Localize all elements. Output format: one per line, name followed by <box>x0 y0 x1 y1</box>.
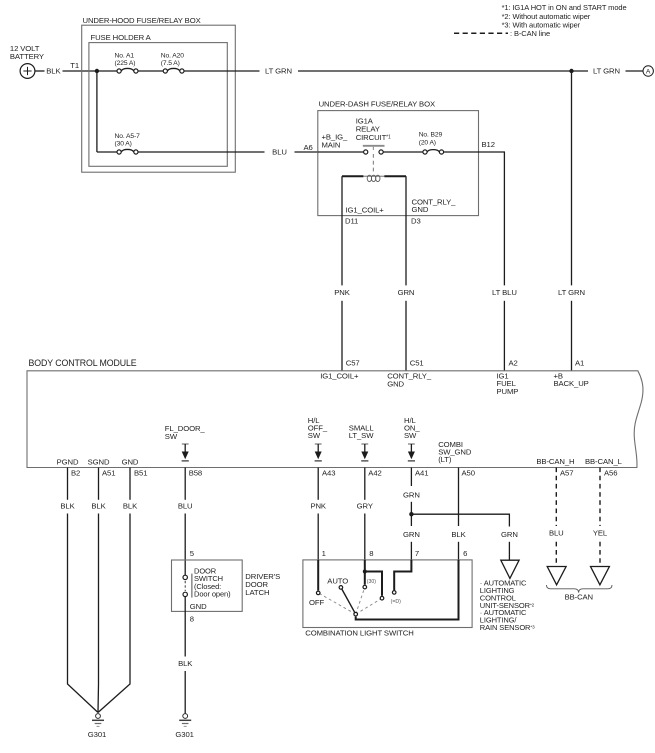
svg-text:No. A20: No. A20 <box>161 52 184 59</box>
contact headlight low <box>380 596 384 600</box>
ground G301 right <box>179 714 191 727</box>
svg-text:GND: GND <box>412 205 429 214</box>
svg-text:OFF: OFF <box>309 598 324 607</box>
fuse A20 <box>163 68 184 73</box>
label +B BACK_UP <box>554 371 589 388</box>
wire B58 upper <box>184 468 186 500</box>
svg-text:PUMP: PUMP <box>497 387 519 396</box>
svg-text:LT GRN: LT GRN <box>265 67 292 76</box>
wire fuse A20 to LT GRN label <box>184 70 260 72</box>
wire to fuse A5-7 <box>97 151 117 153</box>
node pin8 branch <box>363 570 367 574</box>
svg-text:(20 A): (20 A) <box>419 140 436 147</box>
label IG1A RELAY CIRCUIT*1 <box>356 117 391 142</box>
wire fuse A5-7 to BLU label <box>138 151 265 153</box>
svg-text:BLK: BLK <box>60 501 75 510</box>
label No. A1 (225 A) <box>115 52 136 67</box>
svg-text:GRY: GRY <box>357 501 373 510</box>
combination light switch box <box>303 560 472 628</box>
wire B51 upper <box>129 468 131 500</box>
solid arm pivot-AUTO <box>341 587 356 614</box>
connector triangle B-CAN H <box>547 567 566 585</box>
svg-text:A56: A56 <box>604 468 617 477</box>
wire B51 to merge <box>98 514 130 713</box>
svg-text:A6: A6 <box>304 143 313 152</box>
arrow B58 internal <box>182 444 189 461</box>
svg-text:B12: B12 <box>482 140 495 149</box>
node LT GRN junction <box>569 69 573 73</box>
svg-text:BB-CAN_L: BB-CAN_L <box>585 457 623 466</box>
svg-text:D3: D3 <box>411 217 421 226</box>
svg-text:BLU: BLU <box>272 148 287 157</box>
svg-text:GRN: GRN <box>501 530 518 539</box>
driver's door latch box <box>172 560 243 611</box>
svg-text:7: 7 <box>415 549 419 558</box>
svg-text:GRN: GRN <box>403 530 420 539</box>
battery symbol <box>20 64 35 79</box>
wire LT GRN label to node <box>298 70 572 72</box>
wire A41 upper <box>410 468 412 487</box>
label No. B29 (20 A) <box>419 131 443 146</box>
svg-text:G301: G301 <box>88 730 106 739</box>
svg-text:BLU: BLU <box>178 501 193 510</box>
svg-text:BLK: BLK <box>451 530 466 539</box>
svg-text:A2: A2 <box>509 358 518 367</box>
svg-text:C51: C51 <box>410 358 424 367</box>
fuse A1 <box>117 68 138 73</box>
wire junction to fuse A1 <box>97 70 117 72</box>
wire BLK label to junction T1 <box>63 70 97 72</box>
dashed arm pivot-OFF <box>318 593 356 614</box>
contact AUTO <box>339 586 343 590</box>
svg-text:No. A1: No. A1 <box>115 52 135 59</box>
svg-text:BLK: BLK <box>178 659 193 668</box>
arrow A41 internal <box>408 444 415 461</box>
wire fuse B29 to B12 <box>444 151 505 153</box>
svg-text:IG1_COIL+: IG1_COIL+ <box>320 371 359 380</box>
svg-text:LT_SW: LT_SW <box>349 431 374 440</box>
relay K1 contact <box>363 146 385 154</box>
svg-text:A1: A1 <box>575 358 584 367</box>
svg-text:A41: A41 <box>415 468 428 477</box>
svg-text:GND: GND <box>190 602 207 611</box>
wire GRN to junction <box>410 502 412 526</box>
battery 12V label <box>10 44 44 61</box>
wire A51 to merge <box>97 514 100 713</box>
svg-text:YEL: YEL <box>593 529 608 538</box>
connector A <box>643 66 653 76</box>
svg-text:UNDER-DASH FUSE/RELAY BOX: UNDER-DASH FUSE/RELAY BOX <box>319 99 435 108</box>
label bar <box>191 574 193 598</box>
fuse B29 <box>423 150 444 154</box>
svg-text:PNK: PNK <box>310 501 326 510</box>
wire fuse A1 to fuse A20 <box>138 70 163 72</box>
wire relay to fuse B29 <box>383 151 423 153</box>
wire node to LT GRN label right <box>572 70 589 72</box>
svg-text:FUSE HOLDER A: FUSE HOLDER A <box>91 33 152 42</box>
label No. A5-7 (30 A) <box>115 133 141 148</box>
svg-text:GRN: GRN <box>398 288 415 297</box>
svg-text:GND: GND <box>387 379 404 388</box>
wire A50 upper <box>458 468 460 527</box>
wire A43 upper <box>317 468 319 500</box>
wire GRN to sensor triangle <box>508 542 510 560</box>
dashed arm pivot-headlight <box>356 598 382 614</box>
connector triangle B-CAN L <box>591 567 610 585</box>
svg-text:*1: IG1A HOT in ON and START m: *1: IG1A HOT in ON and START mode <box>502 3 627 12</box>
arrow A42 internal <box>361 444 368 461</box>
wire LT GRN vertical <box>571 71 573 285</box>
svg-text:Door open): Door open) <box>194 590 231 599</box>
svg-text:(30 A): (30 A) <box>115 141 132 148</box>
svg-text:BB-CAN: BB-CAN <box>565 593 593 602</box>
BCM box with torn right edge <box>27 371 643 468</box>
ground G301 left <box>92 714 104 727</box>
svg-text:LATCH: LATCH <box>245 588 269 597</box>
wire BLK to box <box>458 542 460 560</box>
relay K1 coil <box>342 175 406 181</box>
wire battery to BLK label <box>35 70 45 72</box>
svg-text:5: 5 <box>190 549 194 558</box>
wire A56 dashed upper <box>599 468 601 527</box>
wire A51 upper <box>98 468 100 500</box>
svg-text:LT BLU: LT BLU <box>492 288 517 297</box>
wire B2 to merge <box>68 514 99 713</box>
svg-text:1: 1 <box>322 549 326 558</box>
svg-text:8: 8 <box>190 614 194 623</box>
svg-text:A43: A43 <box>322 468 335 477</box>
svg-text:A50: A50 <box>462 468 475 477</box>
brace B-CAN <box>547 585 613 593</box>
B-CAN line legend dashes <box>454 32 508 34</box>
contact headlight pin7 <box>392 591 396 595</box>
node T1 junction <box>95 69 99 73</box>
label CONT_RLY_ GND <box>412 197 457 214</box>
svg-text:8: 8 <box>369 549 373 558</box>
svg-text:COMBINATION LIGHT SWITCH: COMBINATION LIGHT SWITCH <box>305 628 413 637</box>
svg-text:GND: GND <box>122 457 139 466</box>
contact OFF <box>316 591 320 595</box>
label No. A20 (7.5 A) <box>161 52 184 67</box>
wire B2 upper <box>67 468 69 500</box>
wire A42 upper <box>364 468 366 500</box>
svg-text:A42: A42 <box>368 468 381 477</box>
wire BLK to ground <box>184 671 186 713</box>
svg-text:(=D): (=D) <box>391 599 402 605</box>
label COMBI SW_GND (LT) <box>438 440 472 464</box>
wire to connector A <box>626 70 644 72</box>
wire pin8 branch to small contact <box>365 572 382 596</box>
svg-text:BLK: BLK <box>123 501 138 510</box>
svg-text:B51: B51 <box>134 468 147 477</box>
wire LT GRN to BCM pin A1 <box>571 301 573 371</box>
svg-text:BACK_UP: BACK_UP <box>554 379 589 388</box>
svg-text:A57: A57 <box>560 468 573 477</box>
svg-text:BLK: BLK <box>91 501 106 510</box>
label +B_IG_ MAIN <box>322 133 349 150</box>
wire A57 dashed upper <box>555 468 557 527</box>
wire LT BLU to BCM pin A2 <box>503 301 505 371</box>
svg-text:LT GRN: LT GRN <box>558 288 585 297</box>
wire GRY to box <box>364 514 366 561</box>
label IG1 FUEL PUMP <box>497 371 519 396</box>
wire junction down to A5-7 row <box>96 71 98 152</box>
wire pin8 to contact <box>364 560 366 585</box>
wire GRN to box <box>410 542 412 560</box>
svg-text:B58: B58 <box>189 468 202 477</box>
svg-text:SW: SW <box>308 431 321 440</box>
svg-text:D11: D11 <box>345 217 358 226</box>
wire BLU label to under-dash box <box>295 151 318 153</box>
wire PNK to box <box>317 514 319 561</box>
svg-text:(LT): (LT) <box>438 455 452 464</box>
wire PNK to BCM pin C57 <box>341 301 343 371</box>
svg-text:: B-CAN line: : B-CAN line <box>510 29 550 38</box>
wire branch to sensor <box>411 514 509 526</box>
label DRIVER'S DOOR LATCH <box>245 572 280 597</box>
svg-text:SW: SW <box>165 432 178 441</box>
arrow A43 internal <box>315 444 322 461</box>
wire BLU label to door switch <box>184 514 186 576</box>
wire B12 corner down LT BLU <box>503 152 505 285</box>
svg-text:T1: T1 <box>70 61 79 70</box>
svg-text:BODY CONTROL MODULE: BODY CONTROL MODULE <box>29 358 137 368</box>
svg-text:MAIN: MAIN <box>322 140 341 149</box>
wire coil left down D11 <box>341 176 343 285</box>
svg-text:No. B29: No. B29 <box>419 131 443 138</box>
fuse A5-7 <box>117 149 138 154</box>
label CONT_RLY_ GND <box>387 371 432 388</box>
dashed arm pivot-small <box>356 587 365 614</box>
svg-text:IG1_COIL+: IG1_COIL+ <box>346 206 385 215</box>
svg-text:PNK: PNK <box>334 288 350 297</box>
svg-text:SGND: SGND <box>88 457 110 466</box>
svg-text:PGND: PGND <box>57 457 79 466</box>
svg-text:(7.5 A): (7.5 A) <box>161 60 180 67</box>
svg-text:SW: SW <box>404 431 417 440</box>
wire A6 to relay contact <box>318 151 364 153</box>
svg-text:6: 6 <box>463 549 467 558</box>
wire coil right down D3 <box>405 176 407 285</box>
label FL_DOOR_ SW <box>165 424 206 441</box>
relay actuation dashed link <box>372 154 374 173</box>
label SMALL LT_SW <box>349 424 375 441</box>
svg-text:BLK: BLK <box>46 67 61 76</box>
fuse holder A box <box>89 43 227 167</box>
svg-text:CIRCUIT*1: CIRCUIT*1 <box>356 133 391 142</box>
svg-text:A: A <box>646 69 651 76</box>
svg-text:No. A5-7: No. A5-7 <box>115 133 141 140</box>
svg-text:(225 A): (225 A) <box>115 60 136 67</box>
label H/L OFF_ SW <box>308 416 328 440</box>
door switch contacts <box>183 575 187 596</box>
svg-text:C57: C57 <box>346 358 360 367</box>
svg-text:BLU: BLU <box>549 529 564 538</box>
wire pin6 to pivot <box>356 560 459 620</box>
wire door switch down <box>184 597 186 657</box>
connector triangle to lighting sensor <box>501 560 519 578</box>
svg-text:GRN: GRN <box>403 490 420 499</box>
svg-text:BB-CAN_H: BB-CAN_H <box>536 457 574 466</box>
svg-text:LT GRN: LT GRN <box>593 67 620 76</box>
wire pin1 to OFF contact <box>317 560 319 591</box>
svg-text:AUTO: AUTO <box>327 576 348 585</box>
under-hood fuse/relay box <box>82 25 236 172</box>
svg-text:BATTERY: BATTERY <box>10 52 44 61</box>
svg-text:B2: B2 <box>71 468 80 477</box>
svg-text:A51: A51 <box>102 468 115 477</box>
label DOOR SWITCH (Closed: Door open) <box>194 567 231 599</box>
contact small <box>363 585 367 589</box>
svg-text:G301: G301 <box>175 730 193 739</box>
svg-text:RAIN SENSOR*3: RAIN SENSOR*3 <box>480 623 535 632</box>
wire pin7 L to headlight contact <box>394 560 411 590</box>
wire A57 dashed lower <box>555 542 557 567</box>
node A41 branch <box>409 512 413 516</box>
label H/L ON_ SW <box>404 416 420 440</box>
pivot contact <box>354 612 358 616</box>
wire GRN to BCM pin C51 <box>405 301 407 371</box>
wire A56 dashed lower <box>599 542 601 567</box>
svg-text:UNDER-HOOD FUSE/RELAY BOX: UNDER-HOOD FUSE/RELAY BOX <box>83 16 201 25</box>
svg-text:(30): (30) <box>367 579 376 585</box>
